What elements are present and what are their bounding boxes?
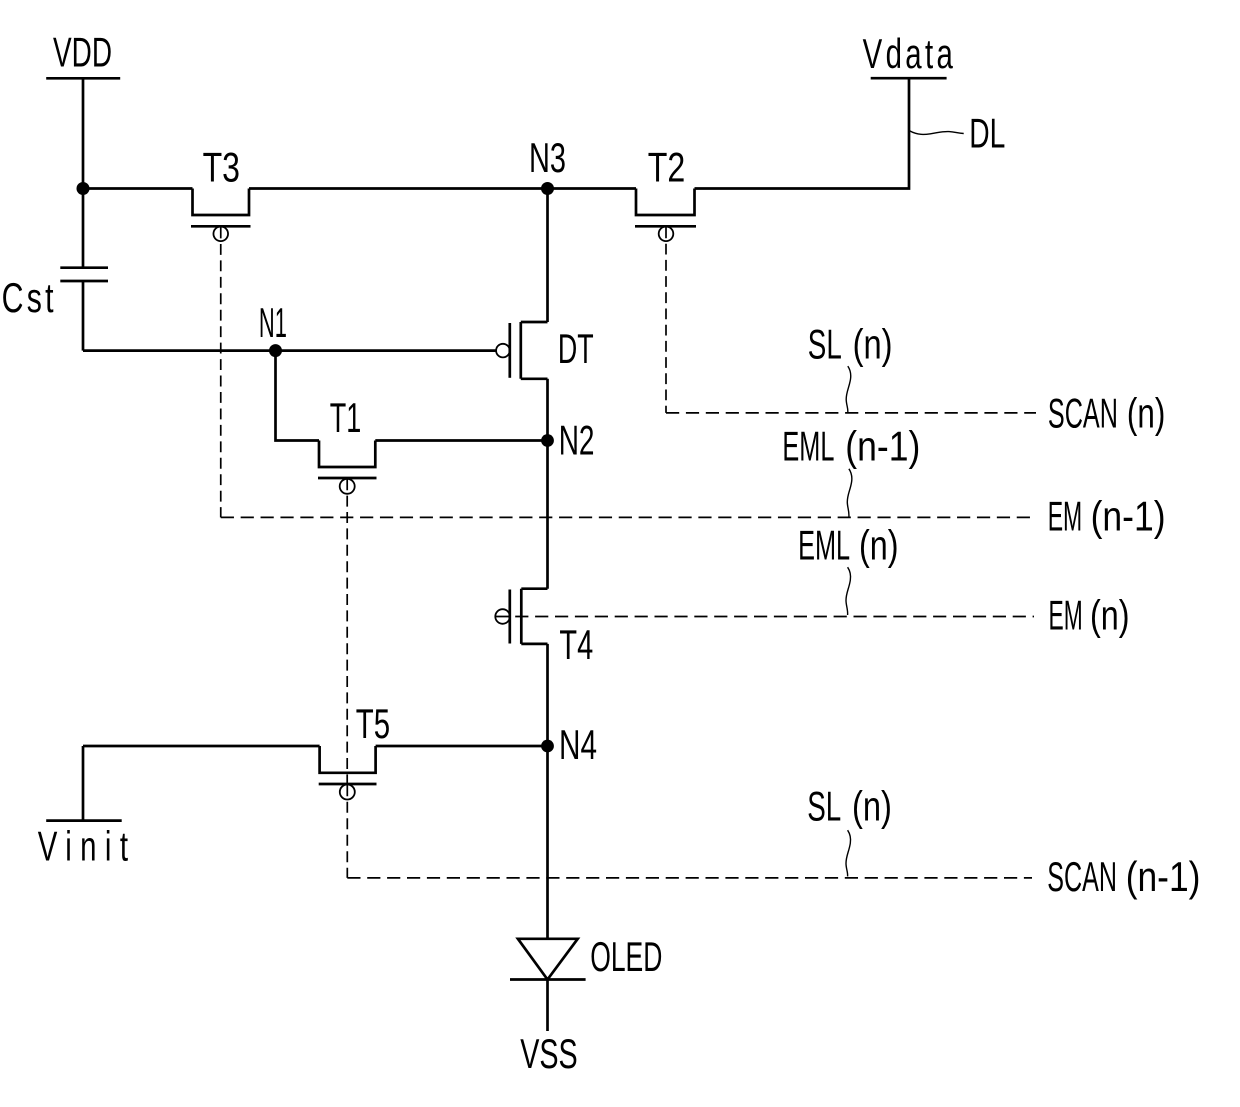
- svg-text:T1: T1: [330, 394, 362, 441]
- svg-text:Cst: Cst: [2, 274, 54, 321]
- transistor T4: [495, 589, 547, 644]
- wire T4 to N4: [546, 644, 549, 746]
- wire DT to N2: [546, 379, 549, 441]
- wire T5 to N4: [376, 745, 548, 748]
- wire dashed T5 gate to SCAN(n-1): [346, 785, 348, 878]
- label EML(n): [798, 522, 898, 569]
- svg-text:EM: EM: [1048, 493, 1083, 540]
- label SL(n) lower: [807, 783, 892, 830]
- node N1: [269, 344, 282, 357]
- leader squiggle SL(n) to SCAN(n): [846, 366, 851, 412]
- svg-text:SCAN: SCAN: [1047, 853, 1117, 900]
- svg-text:T4: T4: [559, 621, 593, 668]
- svg-text:OLED: OLED: [590, 933, 662, 980]
- transistor T1: [318, 441, 377, 494]
- transistor T2: [635, 189, 696, 242]
- svg-text:T3: T3: [203, 143, 240, 190]
- svg-text:(n-1): (n-1): [1091, 493, 1166, 540]
- wire VDD node to T3: [83, 187, 193, 190]
- wire Vinit vertical: [82, 746, 85, 821]
- transistor T5: [319, 746, 377, 800]
- wire N1 row to DT gate: [83, 349, 496, 352]
- svg-text:SCAN: SCAN: [1048, 389, 1118, 436]
- svg-text:SL: SL: [807, 783, 841, 830]
- wire T1 to N2: [375, 439, 547, 442]
- label EML(n-1): [782, 422, 920, 469]
- svg-text:(n): (n): [1090, 592, 1130, 639]
- svg-text:DL: DL: [969, 109, 1005, 156]
- leader squiggle DL: [910, 131, 964, 135]
- power VDD bar: [46, 77, 120, 80]
- svg-text:(n-1): (n-1): [1126, 853, 1201, 900]
- wire dashed T3 gate to EM(n-1): [220, 228, 222, 518]
- svg-text:EML: EML: [782, 422, 834, 469]
- diode OLED: [510, 939, 586, 980]
- wire T2 to DL corner: [695, 78, 910, 188]
- wire N3 to DT: [546, 189, 549, 323]
- svg-text:T2: T2: [648, 143, 686, 190]
- svg-text:(n-1): (n-1): [845, 422, 920, 469]
- node N2: [541, 434, 554, 447]
- wire N2 to T4: [546, 441, 549, 589]
- svg-text:VDD: VDD: [53, 28, 112, 75]
- svg-text:N2: N2: [559, 416, 595, 463]
- wire Vinit row left: [83, 745, 320, 748]
- wire dashed T1 gate to T5: [346, 479, 348, 783]
- wire T3 to N3: [249, 187, 548, 190]
- svg-text:N4: N4: [559, 721, 597, 768]
- wire dashed T2 gate to SCAN(n): [665, 228, 667, 413]
- power Vdata bar: [871, 77, 947, 80]
- power Vinit bar: [46, 819, 122, 822]
- wire Cst to N1 row: [82, 281, 85, 351]
- wire N3 to T2: [548, 187, 637, 190]
- svg-text:EML: EML: [798, 522, 850, 569]
- label SL(n) upper: [808, 321, 893, 368]
- svg-text:SL: SL: [808, 321, 842, 368]
- svg-text:(n): (n): [852, 783, 892, 830]
- node N3: [541, 182, 554, 195]
- wire N1 branch to T1: [276, 351, 320, 441]
- node VDD junction: [77, 182, 90, 195]
- svg-text:T5: T5: [356, 700, 390, 747]
- node N4: [541, 740, 554, 753]
- capacitor Cst: [60, 268, 108, 281]
- wire N4 to OLED: [546, 746, 549, 939]
- svg-text:EM: EM: [1049, 592, 1083, 639]
- svg-text:Vdata: Vdata: [863, 30, 954, 78]
- svg-text:(n): (n): [859, 522, 899, 569]
- svg-text:(n): (n): [1127, 389, 1165, 436]
- svg-text:N1: N1: [259, 299, 287, 346]
- svg-text:VSS: VSS: [520, 1030, 578, 1077]
- wire VDD vertical: [82, 78, 85, 267]
- wire OLED to VSS: [546, 980, 549, 1032]
- transistor DT: [496, 322, 547, 379]
- label SCAN(n-1): [1047, 853, 1200, 900]
- svg-text:DT: DT: [558, 325, 594, 372]
- transistor T3: [191, 189, 251, 242]
- label SCAN(n): [1048, 389, 1165, 436]
- svg-text:(n): (n): [853, 321, 893, 368]
- svg-text:N3: N3: [529, 134, 566, 181]
- label EM(n): [1049, 592, 1130, 639]
- wire dashed EM(n) from T4 gate: [495, 616, 1034, 618]
- leader squiggle EML(n) to EM(n): [846, 567, 851, 615]
- label EM(n-1): [1048, 493, 1166, 540]
- leader squiggle EML(n-1) to EM(n-1): [847, 469, 852, 517]
- leader squiggle SL(n) to SCAN(n-1): [846, 830, 851, 876]
